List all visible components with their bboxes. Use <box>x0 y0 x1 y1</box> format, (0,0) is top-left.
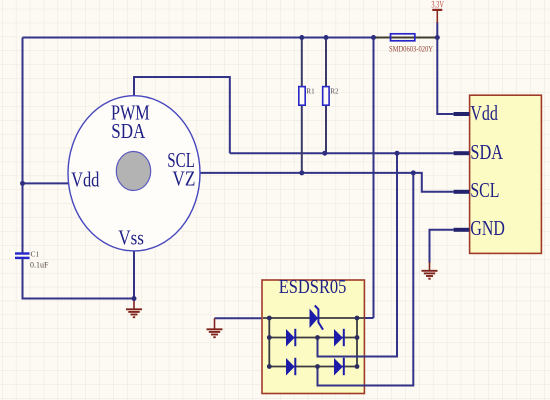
junction bottom ground <box>132 296 137 301</box>
wire 3.3V to fuse junction <box>436 22 438 38</box>
motor U1 hub <box>116 152 150 191</box>
wire SCL net from motor <box>200 173 454 192</box>
wire Vdd tap to motor <box>23 182 70 184</box>
wire bottom to ground junction <box>22 298 135 300</box>
wire ESD Vdd drop <box>373 38 375 319</box>
IC U2 pin Vdd <box>454 112 470 116</box>
svg-text:0.1uF: 0.1uF <box>30 261 49 270</box>
diode D4 <box>286 358 295 376</box>
diode D5 <box>334 358 344 376</box>
ESD internal row1 <box>263 317 365 319</box>
IC U2 pin GND <box>454 228 470 232</box>
svg-text:Vdd: Vdd <box>470 101 498 125</box>
wire fuse junction to Vdd pin <box>437 38 453 115</box>
junction ESD left bus row3 <box>267 364 272 369</box>
svg-text:Vdd: Vdd <box>71 167 100 191</box>
motor U1 body <box>68 96 200 251</box>
fuse F1 body <box>391 34 415 41</box>
junction ESD left bus row2 <box>267 335 272 340</box>
ESD internal right bus <box>356 318 358 367</box>
diode D2 <box>286 329 295 347</box>
resistor R2 body <box>323 87 329 106</box>
wire SDA net <box>230 152 454 154</box>
resistor R1 body <box>299 87 305 106</box>
svg-text:3.3V: 3.3V <box>431 0 444 10</box>
junction top rail R1 <box>299 35 304 40</box>
wire ground to ESD array <box>215 317 264 319</box>
wire left vertical branch <box>22 38 24 254</box>
svg-text:GND: GND <box>470 216 504 240</box>
junction top rail R2 <box>324 35 329 40</box>
wire fuse pins (dark) <box>374 37 438 39</box>
svg-text:VZ: VZ <box>172 167 195 191</box>
wire PWM pin of motor up and over <box>134 77 230 153</box>
junction SCL ESD drop <box>411 170 416 175</box>
wire ESD SDA drop <box>318 153 398 356</box>
junction R1 on SCL <box>299 170 304 175</box>
svg-text:C1: C1 <box>31 250 40 259</box>
svg-text:SDA: SDA <box>111 119 146 143</box>
junction ESD right bus row2 <box>355 335 360 340</box>
svg-text:SCL: SCL <box>470 178 499 202</box>
IC U2 body <box>470 95 542 253</box>
junction top rail power <box>435 35 440 40</box>
ESD array U3 body <box>262 280 364 394</box>
junction ESD left bus row1 <box>267 316 272 321</box>
ground symbol G1 <box>126 299 142 317</box>
ground symbol G2 <box>207 318 223 337</box>
wire ESD SCL drop <box>318 173 414 386</box>
ESD internal row2 <box>269 337 357 339</box>
junction ESD right bus row1 <box>355 316 360 321</box>
junction ESD node SCL <box>315 364 320 369</box>
IC U2 pin SDA <box>454 151 470 155</box>
wire top Vdd rail <box>23 37 374 39</box>
IC U2 pin SCL <box>454 190 470 194</box>
junction R2 on SDA <box>322 151 327 156</box>
junction SDA ESD drop <box>395 151 400 156</box>
ESD internal row3 <box>269 366 357 368</box>
junction ESD right bus row3 <box>355 364 360 369</box>
wire ESD row1 outside box <box>365 317 374 319</box>
wire R2 vertical <box>325 38 327 154</box>
svg-text:ESDSR05: ESDSR05 <box>279 277 347 298</box>
junction top rail ESD drop <box>371 35 376 40</box>
svg-text:SDA: SDA <box>470 140 503 164</box>
svg-text:SMD0603-020Y: SMD0603-020Y <box>389 44 433 53</box>
svg-text:R2: R2 <box>330 88 339 96</box>
svg-text:Vss: Vss <box>118 225 144 249</box>
junction left Vdd tap <box>20 181 25 186</box>
capacitor C1 <box>15 254 30 258</box>
diode D3 <box>334 329 344 347</box>
ESD internal left bus <box>268 318 270 367</box>
svg-text:R1: R1 <box>306 88 315 96</box>
zener diode D1 <box>310 306 324 330</box>
junction ESD node SDA <box>315 335 320 340</box>
wire R1 vertical <box>301 38 303 173</box>
wire below capacitor C1 <box>22 258 24 298</box>
wire Vss pin of motor to ground <box>133 250 135 299</box>
wire GND pin to ground <box>430 230 454 263</box>
ground symbol G3 <box>422 262 438 279</box>
power symbol 3.3V <box>432 10 442 23</box>
